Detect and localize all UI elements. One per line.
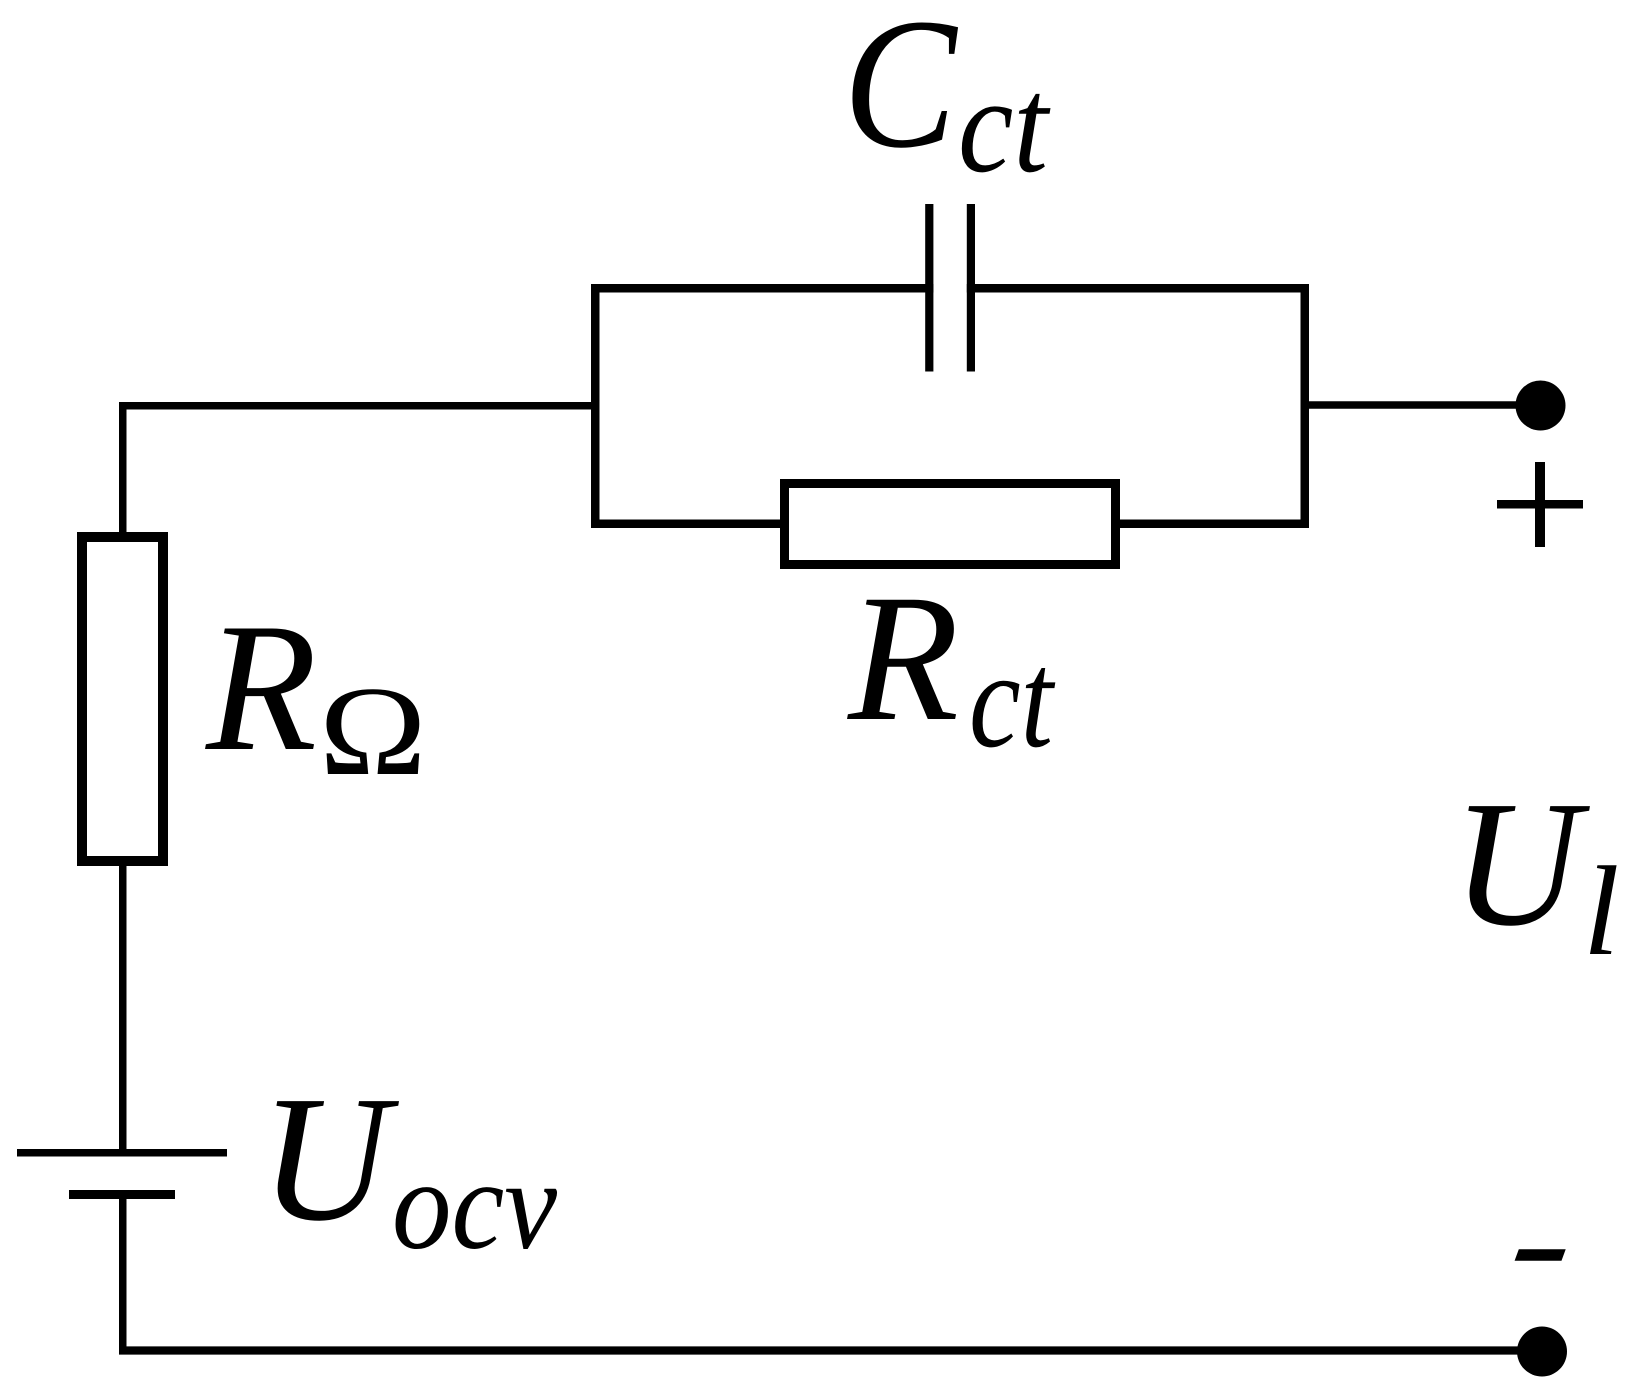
svg-text:U: U — [260, 1059, 399, 1258]
svg-text:ct: ct — [958, 49, 1051, 201]
svg-text:Ω: Ω — [319, 660, 427, 802]
svg-text:R: R — [205, 585, 317, 789]
svg-text:ct: ct — [969, 623, 1056, 776]
svg-text:U: U — [1452, 764, 1590, 963]
svg-text:l: l — [1583, 840, 1619, 982]
svg-text:ocv: ocv — [392, 1134, 557, 1276]
svg-text:R: R — [847, 558, 959, 759]
svg-text:C: C — [843, 0, 959, 187]
